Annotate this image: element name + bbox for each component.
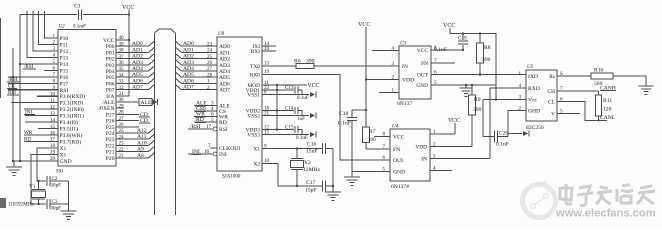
capacitor C19 0.1uF <box>462 34 464 40</box>
svg-text:P17: P17 <box>60 81 69 87</box>
wire left net verticals <box>19 15 21 161</box>
wire TX0 to optocoupler <box>262 65 296 67</box>
svg-text:C2: C2 <box>52 176 58 182</box>
svg-text:WR: WR <box>24 130 33 136</box>
svg-text:P13: P13 <box>60 55 69 61</box>
svg-text:X1: X1 <box>60 152 67 158</box>
svg-text:AD1: AD1 <box>183 47 194 53</box>
svg-text:/RSI: /RSI <box>190 124 200 130</box>
svg-text:30pF: 30pF <box>51 183 62 189</box>
svg-text:P3.5(I1): P3.5(I1) <box>60 126 79 133</box>
svg-text:82C250: 82C250 <box>526 125 544 131</box>
ground far right <box>639 85 654 87</box>
svg-text:C18: C18 <box>339 111 349 117</box>
wire TXD U3 out to U5 <box>431 74 526 76</box>
svg-text:X2: X2 <box>253 161 260 167</box>
U8 TX1 RX1 stubs <box>262 45 276 47</box>
svg-text:P25: P25 <box>106 125 115 131</box>
svg-text:0.1nF: 0.1nF <box>496 142 509 148</box>
svg-text:26: 26 <box>207 60 213 66</box>
svg-text:RD: RD <box>24 137 31 143</box>
resistor R7 390 <box>365 110 367 127</box>
wire P3.6 row net WR <box>24 134 58 136</box>
svg-text:P3.0(RXD): P3.0(RXD) <box>60 93 86 100</box>
svg-text:1uF: 1uF <box>297 116 305 122</box>
svg-text:P03: P03 <box>106 63 115 69</box>
watermark text dianzifashaoyou <box>560 184 655 206</box>
svg-text:AD6: AD6 <box>183 78 194 84</box>
svg-text:SJA1000: SJA1000 <box>222 175 241 180</box>
wire Rs to R10 <box>557 75 591 77</box>
svg-text:25: 25 <box>207 54 213 60</box>
svg-text:P3.6(WR): P3.6(WR) <box>60 132 83 139</box>
capacitor C1 <box>78 10 80 21</box>
svg-text:P3.1(IXD): P3.1(IXD) <box>60 100 84 107</box>
svg-text:110592MHz: 110592MHz <box>8 202 34 208</box>
wire VDD2 VSS2 rows <box>262 110 294 112</box>
svg-text:VCC: VCC <box>417 48 428 54</box>
svg-text:0.1nF: 0.1nF <box>338 121 351 127</box>
svg-text:RX0: RX0 <box>250 72 260 78</box>
svg-text:AD6: AD6 <box>132 78 143 84</box>
capacitor C17 15pF <box>321 180 323 191</box>
svg-text:AD5: AD5 <box>132 72 143 78</box>
svg-text:16: 16 <box>204 149 210 155</box>
svg-text:AD2: AD2 <box>183 54 194 60</box>
U8 CLKOUT stub pin 7 <box>210 147 217 149</box>
wire P17 row net CK <box>8 82 58 84</box>
svg-text:R11: R11 <box>603 98 612 104</box>
capacitor C18 0.1nF <box>351 110 353 117</box>
svg-text:TX0: TX0 <box>250 64 260 70</box>
svg-text:FN: FN <box>421 61 428 67</box>
svg-text:C19: C19 <box>458 36 467 42</box>
svg-text:ALE: ALE <box>141 100 152 106</box>
svg-text:Rs: Rs <box>549 74 555 80</box>
wire P15 row stub <box>44 69 58 71</box>
svg-text:VSS1: VSS1 <box>247 93 260 99</box>
svg-text:C14: C14 <box>285 105 294 111</box>
svg-text:VSS3: VSS3 <box>247 133 260 139</box>
svg-text:23: 23 <box>207 41 213 47</box>
ground MCU GND pin <box>14 160 58 162</box>
svg-text:27: 27 <box>207 66 213 72</box>
bus data left vertical <box>154 33 156 215</box>
wire CANL <box>557 101 607 120</box>
wire P14 row net /RST <box>20 63 58 65</box>
wire P3.3 P3.4 P3.5 stubs <box>25 115 58 117</box>
svg-text:AD5: AD5 <box>219 75 230 81</box>
wire VCC branch to C18 R7 <box>352 109 366 111</box>
svg-text:X1: X1 <box>253 147 260 153</box>
ground arrow VSS3 <box>310 132 315 137</box>
crystal Y2 12MHz <box>296 149 298 159</box>
svg-text:R10: R10 <box>594 68 604 74</box>
wire VDD3 VSS3 rows <box>262 129 294 131</box>
svg-text:P3.7(RD): P3.7(RD) <box>60 139 82 146</box>
svg-text:INI: INI <box>219 152 227 158</box>
svg-text:AD3: AD3 <box>183 60 194 66</box>
resistor R10 560 <box>591 73 613 79</box>
resistor R8 390 <box>479 34 481 43</box>
svg-text:6N137#: 6N137# <box>391 184 409 190</box>
wire X1 row <box>262 148 322 150</box>
svg-text:0.1uF: 0.1uF <box>297 95 309 101</box>
resistor R9 390 <box>471 85 473 95</box>
scan artifact left edge <box>0 18 2 98</box>
svg-text:U4: U4 <box>392 125 399 130</box>
svg-text:120: 120 <box>603 107 612 113</box>
capacitor C15 0.1uF <box>294 126 296 133</box>
svg-text:P11: P11 <box>60 42 69 48</box>
wire RST row net RSI <box>8 89 58 91</box>
svg-text:GND: GND <box>416 83 428 89</box>
wire ALE with buffer <box>116 101 139 103</box>
wire U3 GND row <box>431 84 496 86</box>
svg-text:AD5: AD5 <box>183 72 194 78</box>
svg-text:P12: P12 <box>60 49 69 55</box>
wire X1 to crystal <box>31 154 58 204</box>
wire U4 pin1 to VCC <box>430 133 455 135</box>
wire P3.0 P3.1 stubs <box>37 95 58 97</box>
wire X2 row <box>262 163 322 186</box>
svg-text:RD: RD <box>219 120 227 126</box>
svg-text:AD2: AD2 <box>219 57 230 63</box>
CAN controller U8 SJA1000 box <box>217 37 262 171</box>
svg-text:C13: C13 <box>285 85 294 91</box>
svg-text:GND: GND <box>60 159 72 165</box>
wire P16 row net /RST <box>8 76 58 78</box>
svg-text:P3.2(INI0): P3.2(INI0) <box>60 106 85 113</box>
svg-text:390: 390 <box>473 107 482 113</box>
capacitor C3 30pF <box>46 199 48 209</box>
svg-text:U3: U3 <box>400 42 407 47</box>
svg-text:VCC: VCC <box>393 135 405 141</box>
svg-text:A9: A9 <box>137 147 144 153</box>
svg-text:RXI: RXI <box>251 49 260 55</box>
wire U3 FN stub <box>431 62 455 64</box>
wire P10-P13 verticals to top <box>44 11 58 38</box>
svg-text:Vcc: Vcc <box>528 98 538 104</box>
resistor R11 120 <box>598 91 600 95</box>
svg-text:VCC: VCC <box>443 23 455 29</box>
ground U4 and C18 <box>351 172 353 177</box>
svg-text:/ALE: /ALE <box>102 100 115 106</box>
svg-text:R6: R6 <box>294 59 301 65</box>
CAN transceiver U5 82C250 box <box>526 70 557 121</box>
ground arrow U5 <box>508 133 522 135</box>
MCU U2 89S51 box <box>58 30 116 167</box>
resistor R6 390 <box>296 63 314 68</box>
wire AD0-AD7 bus to SJA1000 with labels <box>175 41 181 46</box>
wire X2 to crystal <box>37 148 58 181</box>
svg-text:VCC: VCC <box>358 22 370 28</box>
wire P3.2 row net INT0 <box>24 108 58 110</box>
svg-text:FN: FN <box>393 147 400 153</box>
svg-text:C20: C20 <box>499 131 509 137</box>
svg-text:/PXEN: /PXEN <box>98 106 114 112</box>
svg-text:P14: P14 <box>60 62 69 68</box>
svg-text:AD4: AD4 <box>219 69 230 75</box>
svg-text:R7: R7 <box>369 129 375 135</box>
svg-text:390: 390 <box>306 59 315 65</box>
wire U3 VCC pin8 to rail <box>431 49 463 51</box>
svg-text:30pF: 30pF <box>51 206 62 212</box>
wire MOD VDD rail to VCC <box>262 84 307 86</box>
svg-text:VDD: VDD <box>402 78 414 84</box>
svg-text:P21: P21 <box>106 150 115 156</box>
svg-text:24: 24 <box>207 48 213 54</box>
svg-text:OUI: OUI <box>393 158 403 164</box>
wire U4 FN pin7 <box>366 148 390 150</box>
svg-text:RSI: RSI <box>60 88 69 94</box>
ground arrow VSS1 <box>310 92 315 97</box>
capacitor C14 1uF <box>294 107 296 114</box>
svg-text:P22: P22 <box>106 143 115 149</box>
capacitor C13 0.1uF <box>294 87 296 94</box>
svg-text:P27: P27 <box>106 112 115 118</box>
svg-text:P24: P24 <box>106 131 115 137</box>
svg-text:/EA: /EA <box>105 94 114 100</box>
svg-text:www.elecfans.com: www.elecfans.com <box>555 208 656 220</box>
U8 INT pin wire with bubble <box>213 152 217 156</box>
svg-text:A12: A12 <box>137 128 147 134</box>
svg-text:P05: P05 <box>106 75 115 81</box>
wire VCC rail <box>450 34 496 100</box>
svg-text:AD3: AD3 <box>219 63 230 69</box>
U3 NC stubs left <box>372 50 399 52</box>
svg-text:U2: U2 <box>59 25 66 30</box>
optocoupler U3 6N137 box <box>399 46 431 99</box>
svg-text:AD7: AD7 <box>183 85 194 91</box>
svg-text:P06: P06 <box>106 81 115 87</box>
wire RXD from U5 to U4 <box>490 88 526 159</box>
optocoupler U4 6N137 box <box>390 129 430 181</box>
svg-text:P20: P20 <box>106 156 115 162</box>
svg-text:VCC: VCC <box>308 83 320 89</box>
svg-text:Y2: Y2 <box>304 160 311 166</box>
svg-text:C16: C16 <box>307 142 317 148</box>
svg-text:GHD: GHD <box>528 108 540 114</box>
capacitor C2 30pF <box>46 176 48 186</box>
wire U4 VCC pin8 <box>374 136 390 138</box>
svg-text:P26: P26 <box>106 119 115 125</box>
U8 control wires from left with labels <box>194 105 217 107</box>
capacitor C20 0.1nF <box>483 100 494 137</box>
svg-text:390: 390 <box>368 137 376 143</box>
svg-text:15nF: 15nF <box>306 149 318 155</box>
wire PSEN stub <box>116 107 124 109</box>
wire U4 GND pin5 to ground <box>352 171 390 173</box>
U8 RST pin wire with bubble <box>213 127 217 131</box>
wire R10 to ground <box>613 76 646 86</box>
svg-text:15: 15 <box>264 130 270 136</box>
wire U4 pin3 from RXD <box>430 158 490 160</box>
wire U4 pin2 to R9 <box>430 146 472 148</box>
svg-text:P15: P15 <box>60 68 69 74</box>
svg-text:AD4: AD4 <box>132 66 143 72</box>
svg-text:A10: A10 <box>137 140 147 146</box>
svg-text:P10: P10 <box>60 36 69 42</box>
svg-text:21: 21 <box>264 111 270 117</box>
svg-text:A11: A11 <box>137 134 147 140</box>
wire VDD1 VSS1 rows <box>262 89 294 91</box>
svg-text:X1: X1 <box>60 146 67 152</box>
svg-text:13: 13 <box>264 61 270 67</box>
svg-text:P16: P16 <box>60 75 69 81</box>
svg-text:P3.4(I0): P3.4(I0) <box>60 119 79 126</box>
svg-text:CL: CL <box>548 99 555 105</box>
svg-text:AD0: AD0 <box>219 44 230 50</box>
wire VCC to pin40 and EA <box>128 15 130 96</box>
svg-text:R9: R9 <box>474 97 481 103</box>
svg-text:CH: CH <box>548 89 556 95</box>
svg-text:P07: P07 <box>106 88 115 94</box>
svg-text:AD1: AD1 <box>219 50 230 56</box>
svg-text:AD4: AD4 <box>183 66 194 72</box>
svg-text:P04: P04 <box>106 69 115 75</box>
svg-text:IXD: IXD <box>528 74 538 80</box>
svg-text:CANL: CANL <box>600 115 616 121</box>
bus hump <box>155 29 176 33</box>
svg-text:P3.3(INI1): P3.3(INI1) <box>60 113 85 120</box>
svg-text:U8: U8 <box>218 32 225 37</box>
svg-text:10: 10 <box>264 158 270 164</box>
svg-text:P01: P01 <box>106 50 115 56</box>
svg-text:VCC: VCC <box>448 118 460 124</box>
svg-text:C17: C17 <box>306 180 316 186</box>
watermark elecfans logo circle <box>523 181 556 218</box>
svg-text:AD0: AD0 <box>183 41 194 47</box>
svg-text:Y1: Y1 <box>29 184 36 190</box>
svg-text:P23: P23 <box>106 137 115 143</box>
svg-text:VSS2: VSS2 <box>247 114 260 120</box>
svg-text:GND: GND <box>393 170 405 176</box>
svg-text:A8: A8 <box>137 153 144 159</box>
wire CANH <box>557 90 599 92</box>
svg-text:IN: IN <box>421 157 427 163</box>
bus data right vertical <box>174 33 176 215</box>
svg-text:AD7: AD7 <box>219 88 230 94</box>
svg-text:C15: C15 <box>285 124 294 130</box>
svg-text:AD2: AD2 <box>132 54 143 60</box>
svg-text:AD0: AD0 <box>132 41 143 47</box>
wire P26 net CD <box>116 120 139 122</box>
svg-text:C3: C3 <box>52 199 58 205</box>
svg-text:VDD: VDD <box>415 145 427 151</box>
svg-text:390: 390 <box>482 57 491 63</box>
svg-text:S91: S91 <box>56 170 64 175</box>
svg-text:0.1uF: 0.1uF <box>296 135 308 141</box>
wire P27 net CD <box>116 113 139 115</box>
svg-text:AD7: AD7 <box>132 85 143 91</box>
wire AD0-AD7 MCU to bus with labels <box>116 45 149 47</box>
svg-text:0.1mF: 0.1mF <box>73 25 86 30</box>
svg-text:U5: U5 <box>527 65 534 70</box>
ground U3 GND <box>465 85 467 88</box>
wire U4 pin4 stub <box>430 170 452 172</box>
svg-text:VCC: VCC <box>122 5 134 11</box>
crystal Y1 11.0592MHz <box>38 181 40 190</box>
wire U3 VDD pin2 <box>366 79 399 81</box>
svg-text:20: 20 <box>264 46 270 52</box>
svg-text:19: 19 <box>264 69 270 75</box>
ground arrow VSS2 <box>310 113 315 118</box>
svg-text:AD1: AD1 <box>132 47 143 53</box>
wire RX0 to optocoupler U4 <box>262 74 390 160</box>
svg-text:P02: P02 <box>106 57 115 63</box>
svg-text:P00: P00 <box>106 44 115 50</box>
ground SJA crystal <box>332 149 334 193</box>
ground MCU crystal <box>68 181 70 211</box>
wire Vref stub <box>557 112 580 114</box>
svg-text:AD6: AD6 <box>219 81 230 87</box>
svg-text:12MHz: 12MHz <box>303 167 321 173</box>
svg-text:VCC: VCC <box>103 38 115 44</box>
svg-text:AD3: AD3 <box>132 60 143 66</box>
wire U5 GND pin2 to C20 <box>508 110 526 136</box>
svg-text:C1: C1 <box>74 4 81 10</box>
svg-text:V: V <box>551 111 555 117</box>
svg-text:6N137: 6N137 <box>397 101 412 107</box>
svg-text:RSI: RSI <box>219 127 228 133</box>
svg-text:28: 28 <box>207 72 213 78</box>
svg-text:OUT: OUT <box>417 73 429 79</box>
svg-text:15pF: 15pF <box>305 188 317 194</box>
wire U5 Vcc pin3 <box>483 99 526 101</box>
svg-text:R8: R8 <box>484 45 491 51</box>
capacitor C16 15nF <box>321 143 323 154</box>
wire address lines A12-A8 to bus <box>116 132 149 134</box>
wire P25 stub <box>116 126 139 128</box>
wire C1 top rail <box>20 14 77 16</box>
svg-text:IN: IN <box>402 64 408 70</box>
svg-text:RXD: RXD <box>528 86 540 92</box>
svg-text:17: 17 <box>206 124 212 130</box>
wire P3.7 row net RD <box>24 141 58 143</box>
